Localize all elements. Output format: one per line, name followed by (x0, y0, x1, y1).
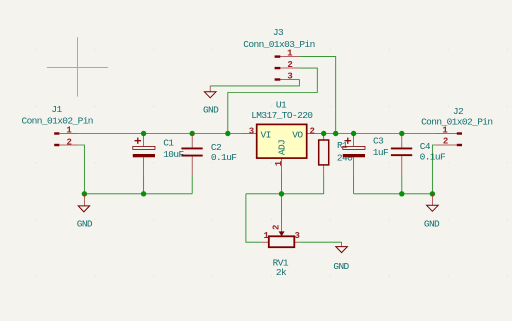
junction node: output rail / R1 top (321, 131, 326, 136)
U1 pin 1 ADJ lead (281, 158, 283, 170)
C3 top plate (343, 146, 365, 149)
U1 pin 2 VO lead (307, 133, 323, 135)
connector J2 (421, 106, 492, 147)
wire: U1 ADJ down to potentiometer wiper (281, 170, 283, 223)
wire: C1 lower lead (143, 175, 145, 194)
svg-text:2: 2 (271, 225, 281, 230)
svg-text:ADJ: ADJ (277, 140, 288, 155)
svg-text:2k: 2k (276, 267, 287, 278)
junction node: output rail / C4 (399, 131, 404, 136)
capacitor C3 (343, 134, 389, 175)
wire: rail down to RV1 pin1 (246, 194, 262, 242)
C3 bottom plate (343, 154, 365, 157)
wire: J2 pin2 down to ground rail (432, 145, 435, 194)
C1 bottom plate (133, 154, 155, 157)
wire: C2 lower lead (191, 175, 193, 194)
svg-text:2: 2 (309, 126, 314, 136)
R1 body (319, 140, 329, 165)
wire: right ground rail (354, 193, 433, 195)
svg-text:3: 3 (295, 231, 300, 241)
U1 pin 3 VI lead (241, 133, 257, 135)
RV1 pin3 lead (294, 241, 300, 243)
C4 top plate (391, 148, 412, 150)
svg-text:VO: VO (292, 129, 303, 140)
C1 polarity plus (135, 138, 142, 144)
C1 bottom lead (143, 157, 145, 175)
svg-text:2: 2 (443, 137, 448, 147)
potentiometer RV1 (262, 223, 300, 279)
svg-text:GND: GND (333, 261, 349, 272)
svg-text:GND: GND (424, 219, 440, 230)
C1 top plate (133, 146, 155, 149)
capacitor C2 (181, 134, 237, 175)
svg-text:LM317_TO-220: LM317_TO-220 (251, 110, 313, 121)
svg-text:C3: C3 (373, 136, 384, 147)
R1 top lead (323, 134, 325, 141)
wire: J3 pin1 to output rail (299, 57, 335, 134)
RV1 wiper arrow (279, 231, 285, 236)
svg-text:Conn_01x02_Pin: Conn_01x02_Pin (421, 116, 492, 127)
C3 polarity plus (345, 138, 352, 144)
connector J1 (21, 104, 92, 148)
wire: R1 bottom lead (323, 175, 325, 194)
power symbol GND (middle, at RV1 pin3) (333, 242, 349, 272)
resistor R1 (319, 134, 353, 176)
RV1 pin1 lead (262, 241, 269, 243)
svg-text:J2: J2 (453, 106, 464, 117)
wire: J3 pin2 to input rail (228, 68, 317, 133)
junction node: input rail / C2 (190, 131, 195, 136)
regulator U1 LM317 (241, 99, 323, 170)
svg-text:U1: U1 (276, 99, 287, 110)
svg-text:GND: GND (77, 218, 93, 229)
svg-text:10uF: 10uF (163, 149, 184, 160)
svg-text:J1: J1 (51, 104, 62, 115)
C2 bottom plate (181, 155, 202, 157)
C2 top lead (191, 134, 193, 148)
svg-text:240: 240 (337, 152, 353, 163)
capacitor C4 (391, 134, 446, 175)
svg-text:0.1uF: 0.1uF (211, 152, 237, 163)
wire: J1 pin2 down to ground rail (79, 145, 85, 194)
C2 top plate (181, 148, 202, 150)
junction node: left ground rail / C1 (141, 191, 146, 196)
wire: C3 lower lead (353, 175, 355, 194)
svg-text:3: 3 (287, 72, 292, 82)
wire: output rail U1 VO to J2.1 (323, 133, 436, 135)
RV1 body (269, 236, 295, 247)
RV1 wiper pin lead (281, 223, 283, 232)
svg-text:C1: C1 (163, 137, 174, 148)
svg-text:J3: J3 (273, 27, 284, 38)
svg-text:Conn_01x02_Pin: Conn_01x02_Pin (21, 116, 92, 127)
svg-text:VI: VI (261, 129, 271, 140)
power symbol GND (left, under J1) (77, 194, 93, 230)
C4 bottom lead (401, 156, 403, 175)
junction node: left ground rail / J1.2 / GND (82, 191, 87, 196)
C4 bottom plate (391, 154, 412, 156)
capacitor C1 (133, 134, 185, 175)
wire: J3 pin3 to GND (210, 80, 299, 86)
svg-text:2: 2 (67, 137, 72, 147)
junction node: input rail / C1 (141, 131, 146, 136)
wire: ADJ rail to R1 bottom (246, 193, 324, 195)
C4 top lead (401, 134, 403, 148)
junction node: output rail / C3 (351, 131, 356, 136)
svg-text:GND: GND (203, 104, 219, 115)
C1 top lead (143, 134, 145, 147)
R1 bottom lead (323, 165, 325, 175)
svg-text:Conn_01x03_Pin: Conn_01x03_Pin (243, 39, 314, 50)
connector J3 (243, 27, 314, 82)
svg-text:1uF: 1uF (373, 147, 389, 158)
wire: left ground rail (84, 193, 192, 195)
junction node: right ground rail / C4 (399, 191, 404, 196)
C2 bottom lead (191, 157, 193, 175)
svg-text:0.1uF: 0.1uF (420, 152, 446, 163)
junction node: right ground rail / J2.2 / GND (430, 191, 435, 196)
svg-text:C4: C4 (420, 141, 431, 152)
wire: RV1 pin3 to GND (300, 241, 342, 243)
wire: main input rail J1.1 to U1 VI (79, 133, 241, 135)
junction node: input rail / J3.2 drop (225, 131, 230, 136)
power symbol GND (right, under J2) (424, 194, 440, 230)
svg-text:3: 3 (249, 126, 254, 136)
junction node: ADJ rail / RV1 wiper (279, 191, 284, 196)
wire: C4 lower lead (401, 175, 403, 194)
svg-text:2: 2 (287, 60, 292, 70)
U1 body (257, 124, 307, 158)
C3 top lead (353, 134, 355, 147)
junction node: output rail / J3.1 drop (333, 131, 338, 136)
C3 bottom lead (353, 157, 355, 175)
power symbol GND (top, under J3 pin3) (203, 86, 219, 116)
sheet origin crosshair (47, 37, 108, 96)
